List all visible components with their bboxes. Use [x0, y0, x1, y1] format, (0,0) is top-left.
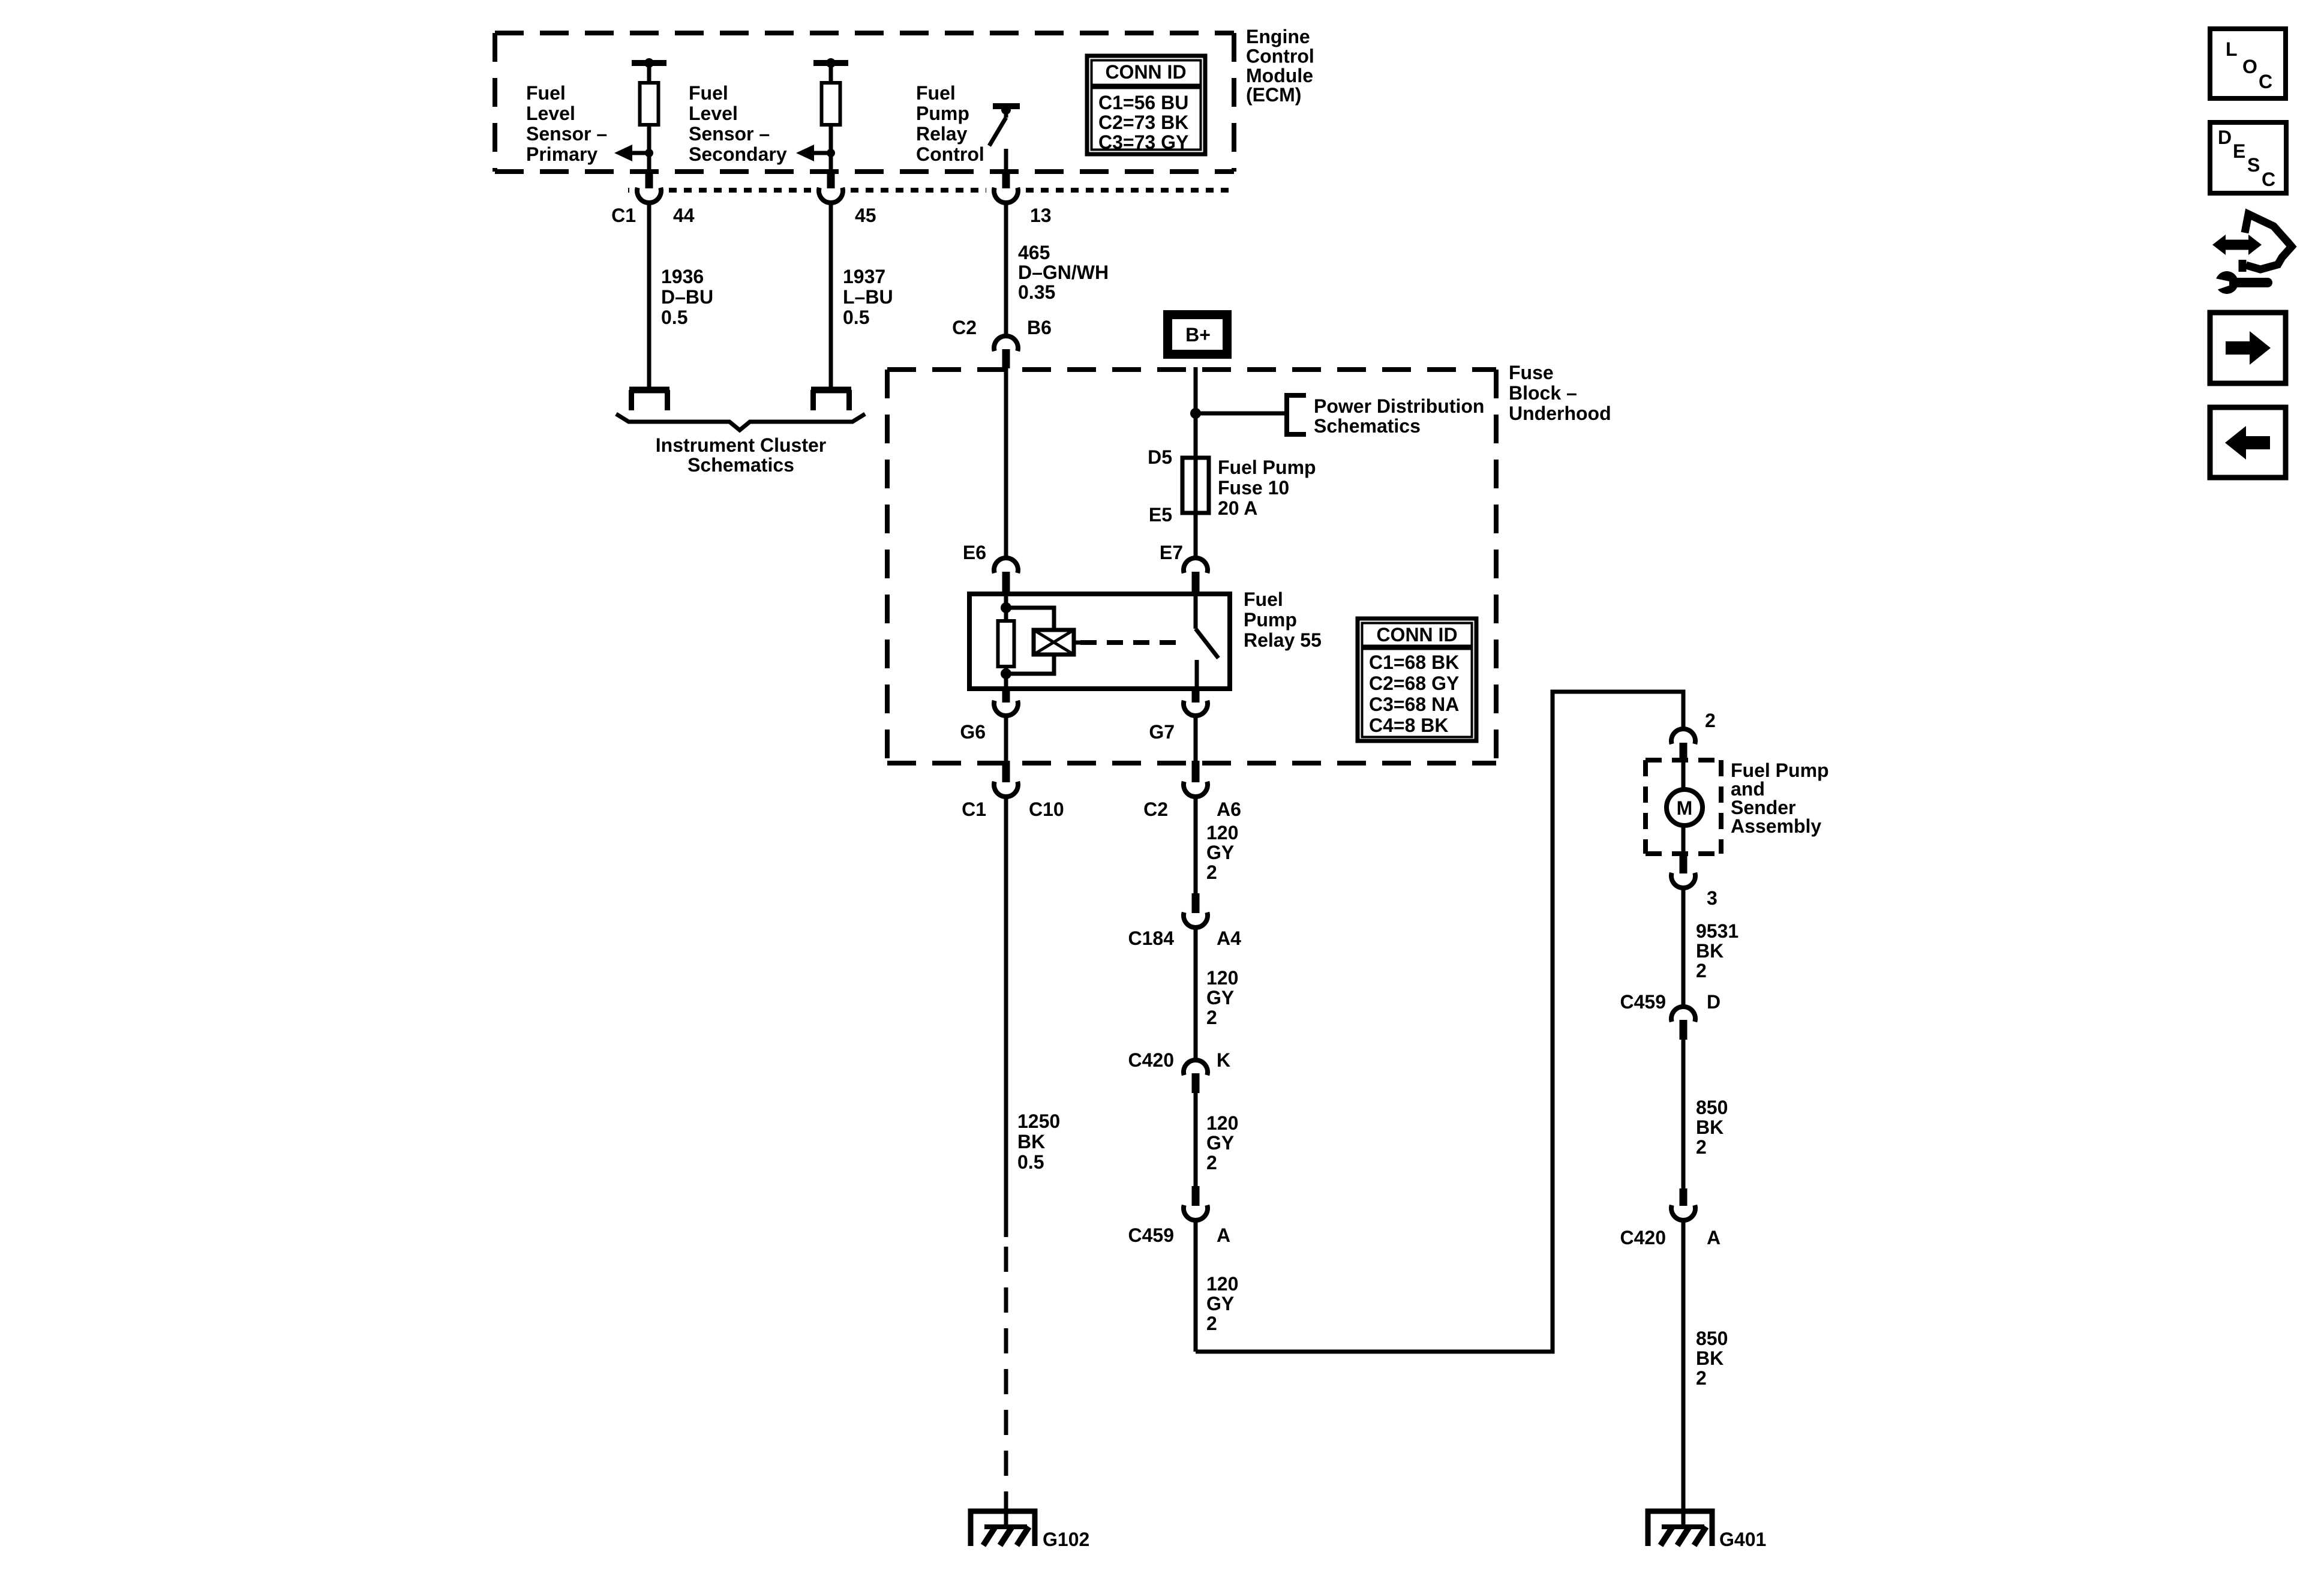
- svg-text:Relay: Relay: [916, 123, 968, 145]
- svg-text:Level: Level: [526, 103, 575, 124]
- svg-text:2: 2: [1206, 1313, 1217, 1334]
- svg-text:GY: GY: [1206, 1293, 1234, 1314]
- svg-text:Control: Control: [1246, 45, 1314, 67]
- svg-text:E7: E7: [1160, 542, 1183, 563]
- svg-text:BK: BK: [1017, 1131, 1045, 1152]
- svg-text:Relay 55: Relay 55: [1244, 629, 1322, 651]
- svg-text:A: A: [1707, 1227, 1721, 1248]
- svg-text:A: A: [1217, 1224, 1230, 1246]
- svg-text:Pump: Pump: [1244, 609, 1297, 631]
- svg-text:Primary: Primary: [526, 143, 597, 165]
- svg-text:45: 45: [855, 205, 876, 226]
- svg-text:D–GN/WH: D–GN/WH: [1018, 262, 1109, 283]
- svg-text:Engine: Engine: [1246, 26, 1310, 47]
- svg-text:C3=68 NA: C3=68 NA: [1369, 694, 1459, 715]
- svg-text:2: 2: [1696, 1367, 1707, 1389]
- svg-text:C2=73 BK: C2=73 BK: [1098, 112, 1188, 133]
- svg-text:Sensor –: Sensor –: [526, 123, 607, 145]
- svg-text:Instrument Cluster: Instrument Cluster: [656, 434, 826, 456]
- svg-text:465: 465: [1018, 242, 1050, 263]
- svg-text:A4: A4: [1217, 927, 1241, 949]
- svg-text:B6: B6: [1027, 317, 1052, 338]
- svg-text:E5: E5: [1149, 504, 1172, 526]
- svg-text:E6: E6: [963, 542, 986, 563]
- svg-text:Fuse 10: Fuse 10: [1218, 477, 1289, 499]
- svg-text:BK: BK: [1696, 1116, 1724, 1138]
- svg-text:M: M: [1677, 797, 1693, 819]
- svg-text:2: 2: [1705, 710, 1716, 731]
- svg-text:GY: GY: [1206, 842, 1234, 863]
- svg-text:Fuse: Fuse: [1509, 362, 1554, 383]
- svg-text:0.5: 0.5: [843, 307, 869, 328]
- svg-text:Block –: Block –: [1509, 382, 1577, 404]
- svg-text:1936: 1936: [661, 266, 704, 287]
- svg-text:9531: 9531: [1696, 920, 1739, 942]
- svg-text:Pump: Pump: [916, 103, 969, 124]
- svg-text:C1: C1: [611, 205, 636, 226]
- svg-text:E: E: [2233, 140, 2245, 162]
- svg-text:120: 120: [1206, 822, 1238, 843]
- svg-text:Fuel: Fuel: [526, 82, 566, 104]
- svg-text:1937: 1937: [843, 266, 885, 287]
- svg-text:Fuel: Fuel: [1244, 589, 1283, 610]
- svg-text:Module: Module: [1246, 65, 1313, 86]
- svg-text:13: 13: [1030, 205, 1052, 226]
- svg-text:D: D: [1707, 991, 1721, 1013]
- svg-text:Schematics: Schematics: [1314, 415, 1421, 437]
- svg-text:C420: C420: [1128, 1049, 1175, 1071]
- svg-text:Level: Level: [689, 103, 738, 124]
- svg-text:2: 2: [1696, 960, 1707, 981]
- svg-text:L–BU: L–BU: [843, 286, 893, 308]
- svg-text:2: 2: [1206, 1152, 1217, 1173]
- svg-text:D: D: [2218, 127, 2232, 148]
- svg-text:BK: BK: [1696, 1347, 1724, 1369]
- svg-text:C1: C1: [962, 798, 986, 820]
- svg-text:C420: C420: [1620, 1227, 1667, 1248]
- svg-text:C2: C2: [952, 317, 977, 338]
- svg-text:C2=68 GY: C2=68 GY: [1369, 673, 1459, 694]
- svg-text:GY: GY: [1206, 987, 1234, 1008]
- svg-text:C10: C10: [1029, 798, 1064, 820]
- svg-text:Fuel: Fuel: [689, 82, 728, 104]
- svg-text:GY: GY: [1206, 1132, 1234, 1154]
- svg-text:G102: G102: [1043, 1529, 1089, 1550]
- svg-text:G401: G401: [1719, 1529, 1766, 1550]
- svg-text:C1=68 BK: C1=68 BK: [1369, 652, 1459, 673]
- svg-text:2: 2: [1206, 1007, 1217, 1028]
- svg-text:D–BU: D–BU: [661, 286, 713, 308]
- svg-text:C459: C459: [1620, 991, 1667, 1013]
- svg-text:850: 850: [1696, 1097, 1728, 1118]
- svg-text:0.5: 0.5: [661, 307, 687, 328]
- svg-text:20 A: 20 A: [1218, 497, 1257, 519]
- svg-text:0.5: 0.5: [1017, 1151, 1044, 1173]
- svg-text:L: L: [2226, 38, 2238, 60]
- svg-text:C: C: [2259, 71, 2272, 92]
- svg-text:C1=56 BU: C1=56 BU: [1098, 92, 1188, 113]
- svg-text:2: 2: [1206, 861, 1217, 883]
- svg-text:850: 850: [1696, 1328, 1728, 1349]
- svg-text:K: K: [1217, 1049, 1230, 1071]
- svg-text:C4=8 BK: C4=8 BK: [1369, 715, 1449, 736]
- svg-text:120: 120: [1206, 1273, 1238, 1295]
- svg-text:G6: G6: [960, 721, 986, 743]
- svg-text:Fuel Pump: Fuel Pump: [1218, 457, 1316, 478]
- svg-text:BK: BK: [1696, 940, 1724, 962]
- svg-text:C: C: [2262, 169, 2275, 190]
- svg-text:CONN ID: CONN ID: [1105, 61, 1186, 83]
- svg-text:Sensor –: Sensor –: [689, 123, 770, 145]
- svg-text:O: O: [2242, 56, 2257, 77]
- svg-text:CONN ID: CONN ID: [1376, 624, 1457, 646]
- svg-text:G7: G7: [1149, 721, 1175, 743]
- svg-text:0.35: 0.35: [1018, 281, 1055, 303]
- svg-text:Schematics: Schematics: [687, 454, 794, 476]
- svg-text:C459: C459: [1128, 1224, 1175, 1246]
- svg-text:Power Distribution: Power Distribution: [1314, 395, 1484, 417]
- svg-text:120: 120: [1206, 1112, 1238, 1134]
- svg-text:C3=73 GY: C3=73 GY: [1098, 131, 1188, 153]
- svg-text:Assembly: Assembly: [1731, 815, 1821, 837]
- svg-text:3: 3: [1707, 887, 1718, 909]
- svg-text:1250: 1250: [1017, 1110, 1060, 1132]
- svg-text:A6: A6: [1217, 798, 1241, 820]
- svg-text:120: 120: [1206, 967, 1238, 989]
- svg-text:44: 44: [673, 205, 695, 226]
- svg-text:2: 2: [1696, 1136, 1707, 1158]
- svg-text:Underhood: Underhood: [1509, 403, 1611, 424]
- svg-text:Fuel: Fuel: [916, 82, 956, 104]
- svg-text:Secondary: Secondary: [689, 143, 787, 165]
- svg-text:C2: C2: [1143, 798, 1168, 820]
- svg-text:S: S: [2247, 154, 2260, 176]
- svg-text:C184: C184: [1128, 927, 1175, 949]
- svg-text:Control: Control: [916, 143, 984, 165]
- svg-text:B+: B+: [1185, 324, 1211, 346]
- svg-text:(ECM): (ECM): [1246, 84, 1301, 106]
- svg-text:D5: D5: [1148, 446, 1172, 468]
